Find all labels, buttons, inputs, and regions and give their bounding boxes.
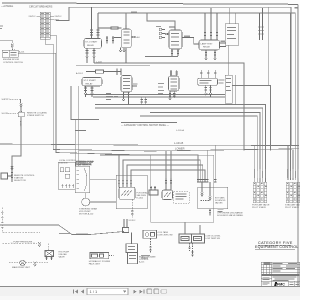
- wire compressor feed: [71, 86, 99, 120]
- toolbar last page button: [140, 290, 145, 294]
- svg-text:L-101-A: L-101-A: [176, 129, 184, 132]
- wire motor lead: [90, 201, 116, 203]
- enclosure E1 steering amplifier: [116, 175, 147, 208]
- wire steering box feeders: [100, 155, 205, 182]
- valve stack V1 label: [252, 204, 270, 210]
- wire supply drop: [20, 99, 22, 103]
- node label A-109: [59, 233, 88, 234]
- svg-text:A-101: A-101: [19, 50, 25, 53]
- low temp switch LS2 label: [206, 236, 222, 241]
- hydraulic box H1 label: [89, 260, 111, 266]
- relay K4 body: [121, 76, 138, 93]
- valve stack V1 marks: [254, 183, 266, 200]
- connector stack K2 left: [106, 36, 114, 44]
- svg-text:A-106: A-106: [19, 121, 22, 127]
- relay K3 bottom pins: [84, 86, 94, 97]
- valve stack V2 wire labels: [287, 169, 298, 178]
- svg-text:STEER SWITCH: STEER SWITCH: [27, 115, 44, 117]
- wire compressor drop2: [78, 86, 80, 166]
- valve stack V2 marks: [287, 183, 300, 200]
- wire S1 out: [18, 50, 56, 53]
- svg-text:L-101-B: L-101-B: [174, 141, 183, 145]
- wire feed to E/R switch: [0, 40, 12, 43]
- wire K5 to K6: [182, 35, 199, 44]
- connector A2: [20, 104, 22, 108]
- wire NEG out: [50, 19, 60, 21]
- node label left edge: [0, 26, 3, 27]
- wire supply drop lower: [20, 107, 22, 112]
- connector stack mid pins: [141, 98, 148, 105]
- connector A1: [11, 44, 13, 48]
- wire K2 top feed: [125, 13, 127, 25]
- toolbar next page button: [134, 290, 137, 294]
- svg-text:24 VDC: 24 VDC: [129, 220, 137, 222]
- svg-text:1 / 1: 1 / 1: [90, 289, 99, 294]
- lamp DS2: [159, 32, 165, 35]
- drawing title text: [255, 241, 298, 249]
- node label SLOW: [2, 113, 19, 115]
- connector A5: [38, 242, 41, 247]
- svg-text:SOLENOID VALVE PANEL: SOLENOID VALVE PANEL: [217, 214, 244, 217]
- switch S2 label: [27, 111, 48, 117]
- wire local station pair: [166, 151, 171, 178]
- wire discharge panel feeders: [207, 146, 215, 183]
- enclosure E2 label: [217, 211, 244, 217]
- title block table: [261, 262, 300, 286]
- note box N1: [174, 192, 189, 203]
- connector A4 arrows: [201, 182, 212, 201]
- svg-text:—A PANEL: —A PANEL: [1, 5, 14, 8]
- relay K2 side pins: [114, 25, 136, 38]
- relay K6 bottom pins: [205, 50, 216, 60]
- wire panel edge: [121, 122, 177, 124]
- bus LOWER: [53, 44, 299, 151]
- wire compressor to motor: [85, 193, 87, 198]
- svg-text:— CATEGORY CONTROL SWITCH PANE: — CATEGORY CONTROL SWITCH PANEL —: [121, 124, 170, 127]
- svg-text:LOW LEVEL SW: LOW LEVEL SW: [158, 234, 173, 236]
- wire interconnect row B: [93, 96, 225, 98]
- low temp switch LS2: [179, 234, 205, 243]
- svg-text:NEG: NEG: [55, 19, 60, 21]
- toolbar first page button: [73, 290, 78, 294]
- relay K8 right labels: [219, 80, 225, 84]
- valve HV1: [45, 251, 54, 261]
- svg-text:STATION: STATION: [59, 161, 68, 164]
- svg-text:LOW TEMP SW: LOW TEMP SW: [206, 238, 220, 240]
- svg-text:RELAY: RELAY: [87, 44, 95, 47]
- wire LS2 grounds: [188, 243, 193, 257]
- enclosure E2 note: [215, 197, 226, 205]
- connector A3 remote station: [11, 166, 13, 182]
- valve stack V1 wire labels: [254, 169, 265, 178]
- brake unit B1 label: [139, 255, 156, 263]
- relay K4 bottom pins: [122, 92, 129, 105]
- hydraulic box H1: [90, 253, 114, 259]
- amplifier U3: [119, 187, 135, 199]
- svg-text:SLOW: SLOW: [2, 113, 9, 115]
- svg-text:ST-2 START: ST-2 START: [84, 79, 97, 82]
- node label A-118: [141, 255, 150, 258]
- svg-text:CIRCUIT BREAKERS: CIRCUIT BREAKERS: [29, 5, 53, 8]
- wire amplifier ground: [131, 199, 133, 218]
- switch S1 engine room: [2, 48, 18, 58]
- switch S1 label: [3, 59, 23, 64]
- wire strip lower out: [50, 35, 56, 53]
- connector J3 stack: [118, 180, 132, 187]
- wire LS1 ground: [149, 239, 151, 254]
- svg-text:SELECTOR: SELECTOR: [14, 180, 26, 182]
- enclosure E2 discharge solenoid panel: [198, 187, 228, 209]
- wire compressor drop: [75, 120, 77, 167]
- lamp DS1: [156, 26, 165, 31]
- terminal 2T block: [149, 186, 158, 195]
- relay K8 top pins: [200, 70, 216, 78]
- svg-text:RELAY: RELAY: [203, 46, 211, 49]
- svg-text:LAMP TEST: LAMP TEST: [201, 42, 214, 45]
- connector J4 pair: [165, 178, 172, 190]
- relay K5 side pins: [165, 27, 175, 35]
- wire right drop G: [225, 7, 269, 85]
- valve stack V2: [286, 182, 300, 203]
- low oil switch LS1 label: [158, 231, 173, 237]
- relay K8 bottom pins: [205, 85, 212, 97]
- wire valve stack2 feeders: [288, 8, 298, 180]
- svg-text:E-1402: E-1402: [137, 197, 144, 199]
- sheet right border: [297, 4, 299, 287]
- relay K8 body: [198, 78, 218, 85]
- svg-text:EQUIPMENT CONTROL: EQUIPMENT CONTROL: [255, 245, 298, 249]
- wire stub labels Z: [218, 209, 224, 213]
- brake unit B1: [126, 233, 138, 264]
- wire pump to valve: [37, 262, 49, 264]
- bus L-101-B: [0, 144, 299, 146]
- node label SUPPLY: [2, 99, 21, 101]
- wire K5 top feed: [147, 13, 175, 27]
- node label ZD corner: [295, 7, 299, 9]
- svg-text:PILOT STACK: PILOT STACK: [285, 206, 300, 209]
- valve stack V2 label: [285, 204, 303, 210]
- relay K1 body: [84, 39, 102, 49]
- wire label column center: [106, 93, 118, 100]
- solenoid driver U4: [162, 190, 173, 200]
- FMC logo: [274, 282, 285, 286]
- compressor box M1: [75, 162, 94, 193]
- junction label J1: [86, 69, 121, 75]
- wire 24VDC in: [29, 16, 41, 18]
- junction box J6: [123, 219, 129, 233]
- wire interconnect row E: [150, 113, 260, 183]
- low oil switch LS1: [143, 230, 157, 238]
- panel P1 label: [59, 159, 77, 164]
- node 24VDC top bus: [56, 7, 291, 146]
- connector J5 stack: [197, 180, 217, 183]
- wire interconnect row F: [140, 116, 257, 182]
- svg-text:PILOT STACK: PILOT STACK: [252, 206, 267, 209]
- svg-text:MOTOR A-110: MOTOR A-110: [79, 213, 94, 216]
- relay K5 bottom pins: [171, 49, 179, 56]
- svg-text:A-115: A-115: [139, 260, 145, 263]
- terminal strip TB1 marks: [41, 13, 49, 37]
- title block text marks: [262, 263, 299, 285]
- wire to hyd valve: [47, 244, 49, 251]
- svg-text:CONTROL SWITCH: CONTROL SWITCH: [3, 62, 23, 64]
- wire interconnect row D: [95, 108, 263, 182]
- svg-text:MAIN PUMP UNIT: MAIN PUMP UNIT: [12, 266, 31, 269]
- relay K7 bottom pins: [169, 91, 176, 100]
- relay K5 body: [169, 30, 182, 49]
- relay K7 left labels: [158, 83, 164, 94]
- toolbar prev page button: [81, 290, 84, 294]
- terminal strip TB1: [40, 12, 50, 39]
- node NEG top bus: [98, 13, 295, 180]
- pump pressure line: [2, 242, 37, 244]
- relay K6 body: [199, 40, 220, 50]
- wire lower panel link: [56, 53, 151, 155]
- wire K1-K2 link: [98, 27, 121, 30]
- wire strip bottom drop: [45, 39, 53, 44]
- motor M2 label: [79, 208, 97, 216]
- sheet top border: [2, 3, 298, 4]
- valve HV1 label: [59, 252, 70, 259]
- relay K1 bottom pins: [86, 48, 96, 63]
- wire interconnect row C: [95, 105, 265, 183]
- svg-text:— PUMP PRESSURE —: — PUMP PRESSURE —: [11, 242, 36, 244]
- wire low temp risers: [185, 222, 200, 234]
- wire K5 return: [145, 56, 178, 58]
- relay K7 top pins: [170, 70, 178, 76]
- title block rev header: [264, 262, 271, 264]
- pump room hydraulic line: [1, 208, 40, 233]
- switch S3 remote station label: [14, 175, 35, 182]
- enclosure E3 control group: [151, 155, 214, 222]
- wire 24VDC out: [50, 16, 62, 18]
- amplifier U3 note: [137, 191, 151, 199]
- svg-text:RELAY: RELAY: [86, 82, 94, 85]
- wire valve stack1 feeders: [254, 146, 256, 183]
- wire panel link: [90, 179, 116, 181]
- svg-text:A-102-1: A-102-1: [76, 72, 84, 75]
- svg-text:24VDC: 24VDC: [29, 16, 36, 18]
- wire E2 ground: [209, 209, 211, 216]
- svg-text:L-103: L-103: [96, 61, 102, 63]
- relay K7 body: [169, 76, 180, 91]
- svg-text:VALVES: VALVES: [215, 202, 223, 205]
- svg-text:COMPRESSOR: COMPRESSOR: [76, 164, 92, 166]
- node label NEG: [131, 11, 137, 12]
- toolbar zoom icons: [147, 289, 167, 294]
- wire bottom bus: [0, 225, 124, 235]
- relay K6 top pins: [204, 8, 218, 40]
- switch S2 remote steer: [18, 111, 24, 117]
- connector A6: [34, 262, 37, 267]
- svg-text:VALVE: VALVE: [59, 256, 66, 259]
- viewer toolbar: [0, 286, 300, 300]
- relay K3 body: [82, 78, 102, 87]
- resistor module U2 right: [225, 45, 235, 105]
- relay K6 right wires: [220, 41, 227, 47]
- svg-text:ST-1 START: ST-1 START: [85, 41, 98, 44]
- motor M2 circle: [82, 198, 90, 206]
- relay K2 body: [121, 29, 131, 48]
- wire interconnect row A: [86, 94, 225, 96]
- valve stack V1: [253, 182, 267, 203]
- svg-text:24VDC: 24VDC: [55, 16, 62, 18]
- lamp DS3: [159, 36, 165, 39]
- svg-text:PACK UNIT: PACK UNIT: [89, 263, 101, 266]
- connector chevrons K2 bottom: [119, 48, 126, 63]
- wire small branch: [75, 130, 86, 132]
- connector J2 stack: [258, 8, 263, 40]
- pump PU1 circle: [9, 260, 33, 266]
- wire interconnect row G2: [232, 86, 271, 151]
- wire A-106 drop: [12, 117, 21, 173]
- svg-text:LOWER: LOWER: [175, 147, 185, 151]
- wire bus lower row: [76, 65, 150, 67]
- wire bus L-103: [94, 63, 244, 151]
- switch S1 inner marks: [3, 52, 17, 56]
- relay K1 coil pins: [90, 7, 100, 38]
- resistor module U1 top right: [225, 8, 239, 45]
- panel P1 local control station: [58, 162, 75, 189]
- svg-text:SUPPLY: SUPPLY: [2, 99, 11, 101]
- switch S3 remote station box: [1, 173, 12, 179]
- toolbar page input: [87, 288, 128, 294]
